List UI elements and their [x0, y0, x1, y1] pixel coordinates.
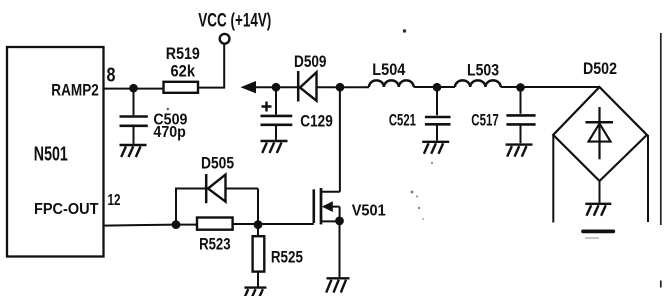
svg-text:V501: V501 — [352, 202, 386, 219]
svg-text:R519: R519 — [166, 45, 200, 63]
svg-text:L503: L503 — [467, 61, 499, 79]
svg-text:R523: R523 — [199, 236, 231, 254]
svg-text:FPC-OUT: FPC-OUT — [34, 201, 99, 218]
svg-text:L504: L504 — [372, 61, 406, 79]
svg-text:12: 12 — [108, 192, 121, 209]
svg-text:C129: C129 — [300, 113, 333, 131]
svg-text:R525: R525 — [271, 249, 303, 267]
svg-text:VCC (+14V): VCC (+14V) — [198, 11, 271, 32]
svg-text:470p: 470p — [153, 124, 186, 141]
svg-text:62k: 62k — [171, 63, 196, 81]
svg-text:N501: N501 — [34, 143, 68, 165]
svg-text:D505: D505 — [201, 155, 234, 173]
svg-text:C517: C517 — [471, 111, 499, 129]
svg-text:C521: C521 — [389, 112, 416, 130]
svg-text:D509: D509 — [294, 53, 327, 71]
svg-text:RAMP2: RAMP2 — [51, 82, 99, 100]
svg-text:8: 8 — [107, 65, 116, 87]
svg-text:D502: D502 — [583, 60, 617, 78]
